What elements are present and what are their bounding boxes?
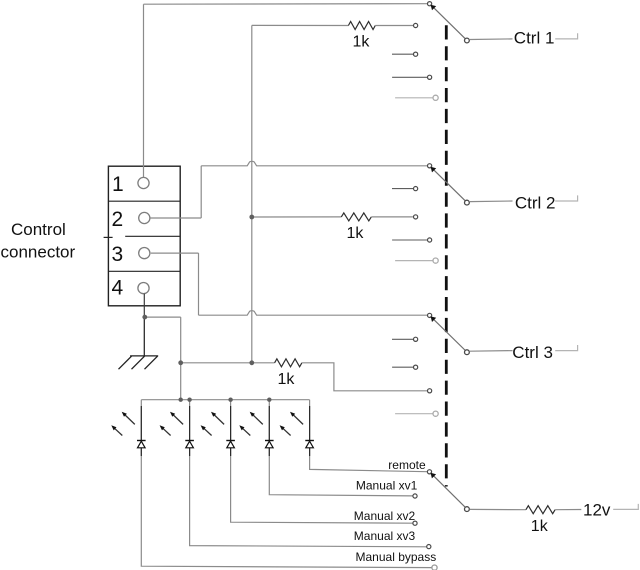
junction dot ground bus left <box>178 360 183 365</box>
LED D5 triangle <box>306 441 314 448</box>
LED D2 triangle <box>186 441 194 448</box>
switch SW1 arm arrowhead <box>431 5 437 11</box>
LED D5 lead dark segment <box>309 406 311 456</box>
svg-text:4: 4 <box>112 277 124 300</box>
wire LED D5 branch <box>310 400 428 472</box>
switch SW2 contact 2 <box>414 187 418 191</box>
LED D1 emission arrow b <box>114 428 122 435</box>
wire SW3 contact3 stub <box>392 366 414 368</box>
LED D3 emission arrow a <box>214 415 224 425</box>
switch SW4 contact xv1 <box>413 494 417 498</box>
wire to Ctrl3 common with hop <box>199 311 428 316</box>
connector row divider 1/2 <box>108 200 180 202</box>
ground symbol <box>119 356 159 369</box>
LED D1 triangle <box>138 441 146 448</box>
switch SW3 contact 3 <box>414 365 418 369</box>
LED D1 emission arrow a <box>125 415 135 425</box>
switch SW2 contact 5 <box>433 258 438 263</box>
wire to resistor R2 <box>252 216 341 218</box>
switch SW2 common contact <box>428 164 432 168</box>
LED D3 triangle <box>227 441 235 448</box>
junction dot ground bus / resistor net <box>249 360 254 365</box>
switch SW1 pole circle <box>465 38 470 43</box>
wire R3 to contact <box>302 363 428 391</box>
wire SW1 pole out <box>470 38 513 41</box>
switch SW3 contact 2 <box>414 337 418 341</box>
wire SW1 contact4 stub <box>392 76 427 78</box>
svg-text:Manual xv2: Manual xv2 <box>354 509 416 523</box>
junction dot ground / LED bus <box>179 398 183 402</box>
svg-text:Control: Control <box>11 220 66 239</box>
wire SW2 contact5 stub <box>395 260 433 262</box>
LED D1 cathode bar <box>137 440 146 442</box>
wire LED D3 branch <box>231 400 413 524</box>
svg-text:Ctrl 2: Ctrl 2 <box>515 193 556 212</box>
svg-text:Manual bypass: Manual bypass <box>356 550 437 564</box>
switch SW4 remote contact <box>427 470 431 474</box>
wire SW2 terminal stub with tick <box>555 195 577 201</box>
wire SW3 contact2 stub <box>392 338 414 340</box>
wire R2 to contact <box>371 216 413 218</box>
switch SW4 contact bypass <box>432 565 437 570</box>
LED D2 cathode bar <box>185 440 194 442</box>
svg-text:1k: 1k <box>347 225 365 242</box>
switch SW2 arm arrowhead <box>431 167 437 173</box>
junction dot pin4 node <box>142 315 147 320</box>
wire SW1 contact5 stub <box>395 97 433 99</box>
svg-text:1k: 1k <box>278 371 296 388</box>
connector J1 box <box>108 166 180 306</box>
switch SW3 common contact <box>428 313 432 317</box>
svg-text:connector: connector <box>1 243 76 262</box>
label Control connector <box>1 220 76 262</box>
LED D5 emission arrow b <box>283 428 291 435</box>
LED D4 cathode bar <box>265 440 274 442</box>
switch SW3 contact 5 <box>433 411 438 416</box>
connector row divider 3/4 <box>108 270 180 272</box>
switch SW3 arm <box>431 316 467 352</box>
wire SW2 contact4 stub <box>392 239 427 241</box>
wire pin4 down <box>143 294 145 317</box>
wire SW4 pole to R4 <box>470 508 526 510</box>
junction dot LED bus D4 <box>267 398 271 402</box>
svg-text:Ctrl 3: Ctrl 3 <box>512 343 553 362</box>
svg-text:Ctrl 1: Ctrl 1 <box>514 29 555 48</box>
switch SW1 contact 4 <box>428 75 432 79</box>
resistor R1 1k <box>348 22 375 30</box>
pin 4 circle <box>138 283 149 294</box>
svg-text:Manual xv1: Manual xv1 <box>356 478 418 492</box>
switch SW4 arm arrowhead <box>431 473 437 479</box>
LED D5 cathode bar <box>305 440 314 442</box>
wire to Ctrl2 common with hop <box>201 161 427 166</box>
svg-text:1k: 1k <box>531 518 549 535</box>
switch SW2 contact 3 <box>414 215 418 219</box>
LED D1 lead dark segment <box>140 406 142 456</box>
resistor R2 1k <box>341 213 371 221</box>
LED D5 emission arrow a <box>293 415 303 425</box>
pin 3 circle <box>139 248 150 259</box>
pin 2 circle <box>139 212 150 223</box>
switch SW3 arm arrowhead <box>431 316 437 322</box>
wire SW3 pole out <box>470 350 513 353</box>
svg-text:12v: 12v <box>583 500 611 519</box>
switch SW4 pole circle <box>465 507 470 512</box>
LED D4 triangle <box>266 441 274 448</box>
switch SW4 arm <box>430 473 467 509</box>
wire pin2 up <box>200 166 202 218</box>
svg-text:3: 3 <box>112 243 124 266</box>
switch SW1 common contact <box>428 2 432 6</box>
svg-text:2: 2 <box>112 208 124 231</box>
wire ground stem <box>143 317 145 356</box>
svg-text:Manual xv3: Manual xv3 <box>354 529 416 543</box>
wire LED D4 branch <box>269 400 413 496</box>
LED D2 emission arrow a <box>173 415 183 425</box>
wire down to ground bus <box>180 317 182 363</box>
wire SW3 contact5 stub <box>395 413 433 415</box>
junction dot LED bus D2 <box>187 398 191 402</box>
wire top to Ctrl1 common <box>144 3 428 5</box>
wire ground bus to LED bus <box>180 363 182 400</box>
svg-text:1: 1 <box>112 173 124 196</box>
LED D2 emission arrow b <box>163 428 171 435</box>
LED D4 emission arrow b <box>242 428 250 435</box>
switch SW3 pole circle <box>465 350 470 355</box>
pin 1 circle <box>138 177 149 188</box>
svg-text:remote: remote <box>388 458 426 472</box>
switch SW4 contact xv3 <box>427 545 431 549</box>
resistor-net vertical <box>251 25 253 362</box>
switch SW2 arm <box>431 167 467 203</box>
wire pin1 up <box>143 4 145 177</box>
junction dot LED bus D3 <box>228 398 232 402</box>
LED D3 lead dark segment <box>230 406 232 456</box>
resistor R3 1k <box>275 359 302 367</box>
wire LED D1 branch <box>141 400 432 568</box>
switch SW3 contact 4 <box>428 389 432 393</box>
wire pin4 node right <box>144 316 180 318</box>
LED D3 emission arrow b <box>204 428 212 435</box>
wire pin3 right <box>151 252 199 254</box>
switch gang dashed line <box>445 25 448 486</box>
wire R4 to 12v <box>555 509 581 511</box>
switch SW1 contact 2 <box>414 23 418 27</box>
switch SW4 contact xv2 <box>413 521 417 525</box>
LED anode bus <box>141 399 309 401</box>
junction dot resistor net / R2 <box>249 215 254 220</box>
svg-text:1k: 1k <box>353 34 371 51</box>
wire to resistor R1 <box>252 24 349 26</box>
wire SW2 contact2 stub <box>392 188 414 190</box>
LED D4 emission arrow a <box>253 415 263 425</box>
wire pin2 right <box>150 217 201 219</box>
ground bus horizontal <box>181 362 275 364</box>
switch SW1 contact 3 <box>414 52 418 56</box>
wire pin3 down <box>198 253 200 315</box>
wire SW1 terminal stub with tick <box>555 33 577 39</box>
wire SW1 contact3 stub <box>392 53 414 55</box>
LED D3 cathode bar <box>226 440 235 442</box>
connector row divider 2/3 <box>104 236 181 237</box>
wire 12v terminal with tick <box>613 504 638 510</box>
switch SW2 contact 4 <box>428 238 432 242</box>
wire SW3 terminal stub with tick <box>555 345 577 351</box>
switch SW1 arm <box>431 5 467 41</box>
wire LED D2 branch <box>190 400 427 547</box>
resistor R4 1k <box>526 506 555 514</box>
LED D2 lead dark segment <box>189 406 191 456</box>
LED D4 lead dark segment <box>268 406 270 456</box>
switch SW2 pole circle <box>465 200 470 205</box>
wire R1 to contact <box>375 25 413 27</box>
switch SW1 contact 5 <box>433 95 438 100</box>
wire SW2 pole out <box>470 200 513 203</box>
